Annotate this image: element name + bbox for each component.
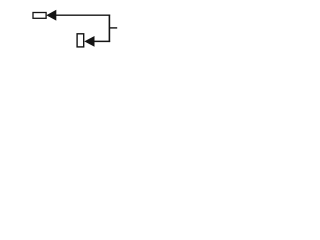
stub pin (right tap on vertical wire)	[109, 27, 117, 29]
wire (top horizontal segment)	[56, 14, 110, 16]
wire (bottom horizontal segment)	[94, 40, 111, 42]
port box B1 (top, horizontal)	[33, 13, 46, 19]
arrowhead A1 (points left into B1)	[46, 10, 56, 21]
arrowhead A2 (points left into B2)	[84, 36, 94, 47]
wire (right vertical segment)	[108, 15, 110, 43]
port box B2 (bottom, vertical)	[77, 34, 84, 47]
